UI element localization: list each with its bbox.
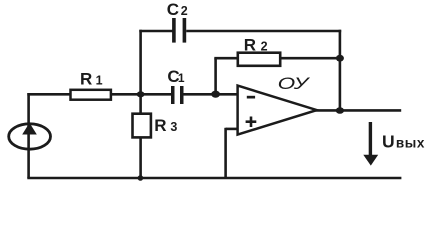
capacitor C1 right plate [180, 86, 184, 104]
current source I1 circle [9, 124, 51, 149]
ground rail bottom wire [27, 177, 401, 180]
wire plus input stub [226, 128, 238, 131]
capacitor C2 right plate [183, 18, 187, 43]
junction dot node B [211, 91, 220, 98]
capacitor C1 left plate [171, 86, 175, 104]
op-amp U1 triangle [238, 86, 317, 135]
wire R3 to ground rail [139, 138, 142, 179]
wire node B up to R2 branch [214, 58, 217, 94]
op-amp inverting input minus sign [247, 96, 255, 99]
svg-text:C1: C1 [167, 67, 184, 86]
junction dot output node [336, 107, 344, 114]
wire R2 branch right [281, 57, 340, 60]
wire plus input to ground rail [224, 128, 227, 178]
output arrow Uvyh shaft [369, 122, 372, 157]
svg-text:R3: R3 [154, 116, 177, 135]
resistor R1 [71, 90, 111, 100]
wire node A to R3 [139, 94, 142, 113]
junction dot node A [137, 91, 145, 97]
resistor R3 [133, 114, 151, 138]
wire right vertical feedback to output [339, 30, 342, 111]
current source arrow head [22, 123, 37, 135]
svg-text:ОУ: ОУ [278, 75, 310, 93]
svg-text:Uвых: Uвых [382, 131, 425, 151]
wire output line [316, 109, 402, 112]
wire main input line left segment [27, 93, 70, 96]
wire C2 to right vertical [186, 30, 341, 33]
output arrow Uvyh head [363, 155, 378, 166]
wire R1 to C1 [111, 93, 172, 96]
wire C1 to op-amp inverting input [184, 93, 239, 96]
capacitor C2 left plate [172, 18, 176, 43]
junction dot R3 ground [138, 175, 144, 181]
wire R2 branch left [214, 57, 237, 60]
svg-text:C2: C2 [167, 0, 188, 19]
svg-text:R1: R1 [80, 70, 103, 89]
op-amp non-inverting input plus sign [246, 120, 257, 123]
wire node A up to C2 branch [139, 30, 142, 95]
junction dot R2 feedback [336, 55, 344, 62]
wire left source branch vertical [27, 93, 30, 178]
wire top line to C2 [139, 30, 172, 33]
resistor R2 [238, 53, 280, 66]
svg-text:R2: R2 [244, 35, 268, 54]
